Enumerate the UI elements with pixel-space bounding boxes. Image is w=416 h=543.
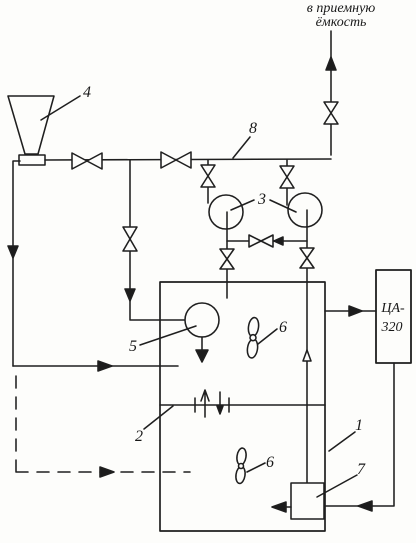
wire: right pump suction (286, 160, 288, 205)
valve: crossover bowtie (249, 235, 273, 247)
arrow: flow down on branch (125, 289, 135, 301)
hopper 4 outlet box (19, 155, 45, 165)
valve: pipe bowtie valve right (161, 152, 191, 168)
arrow: flow right on dashed line (100, 467, 114, 477)
agitator 6 upper: hub (250, 335, 256, 341)
wire: branch to mixer 5 (130, 160, 185, 320)
valve: right discharge hourglass (300, 248, 314, 268)
arrow: pump 7 outlet left (272, 502, 291, 512)
arrow: flow up inside tank on right line (303, 350, 311, 361)
wire: riser to receiving tank (330, 31, 332, 155)
agitator 6 lower: hub (239, 464, 244, 469)
agitator 6 lower: top blade (236, 447, 247, 465)
arrow: flow right on feed line (98, 361, 112, 371)
arrow: flow left on return line (358, 501, 372, 511)
partition tick right (228, 398, 230, 412)
arrow: flow up on riser (326, 57, 336, 70)
partition tick left (194, 398, 196, 412)
wire: tank to CA-320 (325, 310, 376, 312)
valve: riser hourglass valve (324, 102, 338, 124)
wire: main horizontal pipe 8 (45, 159, 331, 160)
tank 1 body (160, 282, 325, 531)
arrow: mixer 5 outlet down (196, 337, 208, 362)
agitator 6 upper: bottom blade (246, 338, 259, 358)
valve: left pump suction hourglass (201, 165, 215, 187)
svg-text:3: 3 (257, 191, 266, 208)
valve: branch hourglass valve (123, 227, 137, 251)
svg-text:320: 320 (381, 320, 403, 335)
arrow: overflow down (217, 392, 223, 414)
arrow: flow right into CA-320 (349, 306, 362, 316)
valve: pipe bowtie valve left (72, 153, 102, 169)
svg-text:1: 1 (355, 417, 363, 434)
svg-text:7: 7 (357, 461, 366, 478)
wire: left pump discharge (226, 212, 228, 298)
valve: right pump suction hourglass (280, 166, 294, 188)
wire: hopper left downcomer (13, 161, 20, 366)
svg-text:4: 4 (83, 84, 91, 101)
wire: left pump suction (207, 160, 209, 203)
agitator 6 upper: top blade (247, 317, 260, 337)
valve: left discharge hourglass (220, 249, 234, 269)
svg-text:ёмкость: ёмкость (316, 15, 367, 30)
arrow: flow left into crossover (274, 237, 283, 245)
wire: right pump discharge down to pump 7 (306, 210, 308, 483)
wire: CA-320 return line to pump 7 (326, 363, 394, 506)
label 2 leader (144, 406, 173, 429)
svg-text:в приемную: в приемную (307, 1, 376, 16)
wire: lower feed line into tank (13, 365, 178, 367)
partition 2 baffle line (160, 404, 325, 406)
svg-text:8: 8 (249, 120, 257, 137)
pump 3 left circle (209, 195, 243, 229)
arrow: flow down on downcomer (8, 246, 18, 258)
arrow: overflow up (201, 390, 209, 417)
label 4 leader (41, 96, 80, 120)
wire: crossover between pumps (227, 240, 307, 242)
svg-text:2: 2 (135, 428, 143, 445)
label 8 leader (233, 137, 250, 158)
label 7 leader (317, 475, 357, 497)
label 3 leaders (231, 200, 296, 212)
pump 3 right circle (288, 193, 322, 227)
label 6 upper leader (258, 329, 277, 344)
svg-text:5: 5 (129, 338, 137, 355)
unit CA-320 box (376, 270, 411, 363)
label 5 leader (140, 326, 196, 345)
label 6 lower leader (247, 463, 265, 472)
label 1 leader (329, 432, 355, 451)
agitator 6 lower: bottom blade (235, 466, 246, 484)
pump 7 box (291, 483, 324, 519)
wire: dashed drain line (16, 376, 190, 472)
svg-text:6: 6 (266, 454, 274, 471)
svg-text:ЦА-: ЦА- (380, 301, 405, 316)
svg-text:6: 6 (279, 319, 287, 336)
hopper 4 body (8, 96, 54, 154)
mixer 5 circle (185, 303, 219, 337)
